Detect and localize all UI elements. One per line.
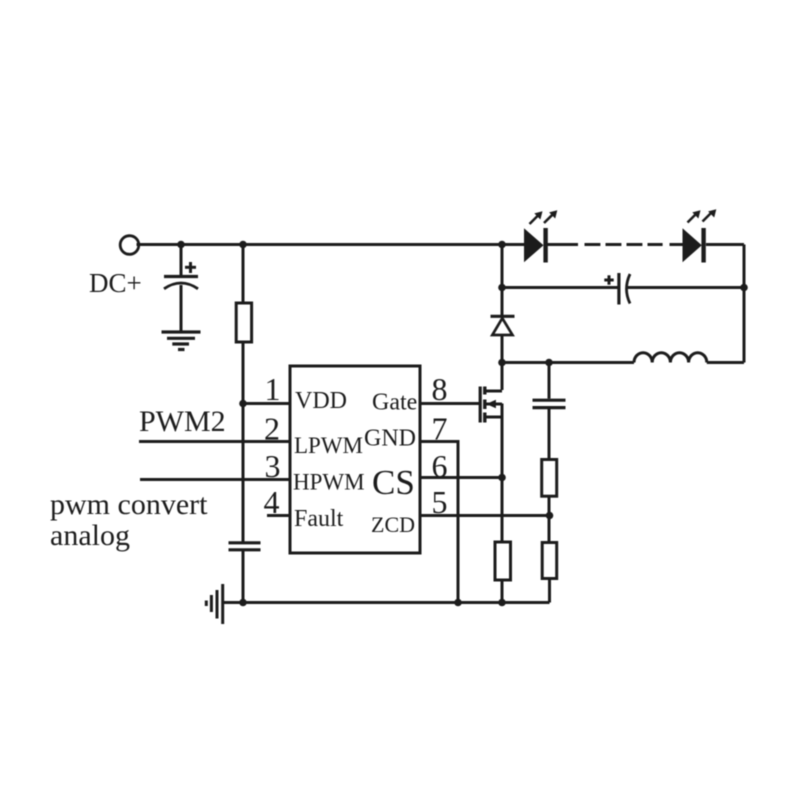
wire pin 4 stub	[267, 514, 290, 517]
node junction rail3 left	[498, 359, 506, 367]
svg-text:pwm convert: pwm convert	[50, 488, 208, 521]
capacitor C2 analog	[229, 543, 261, 550]
svg-text:8: 8	[432, 371, 448, 407]
wire pin 2 LPWM input	[139, 440, 290, 443]
wire pin 3 HPWM input	[140, 478, 290, 481]
wire Q1 drain up	[501, 363, 504, 391]
wire LED1 cathode	[546, 243, 578, 246]
LED D3	[683, 209, 717, 262]
diode D1 freewheel	[491, 316, 515, 335]
wire top rail	[137, 243, 503, 246]
node junction rail2 left	[498, 284, 506, 292]
inductor L1	[634, 353, 707, 363]
wire rail2 left segment	[502, 286, 618, 289]
wire C1 bottom lead	[180, 285, 183, 331]
svg-text:LPWM: LPWM	[294, 433, 363, 458]
node junction pin6 CS to source	[498, 474, 506, 482]
capacitor C1 polarized input	[164, 262, 198, 289]
wire pin 5 ZCD	[420, 514, 550, 517]
svg-text:HPWM: HPWM	[293, 470, 365, 495]
wire C1 top lead	[180, 245, 183, 277]
wire pin 7 GND down to rail	[420, 442, 458, 603]
wire LED2 anode	[670, 243, 683, 246]
svg-text:4: 4	[264, 484, 280, 520]
resistor R4 ZCD lower	[542, 543, 557, 579]
wire rail3 left segment	[502, 361, 634, 364]
capacitor C3 output polarized	[604, 273, 630, 305]
wire R4 bottom to rail	[548, 579, 551, 603]
wire R1 bottom to C2	[242, 342, 245, 543]
svg-text:1: 1	[265, 371, 281, 407]
terminal DC+ input	[120, 236, 139, 255]
transistor Q1 NMOS	[480, 387, 502, 423]
wire right vertical	[743, 245, 746, 363]
wire LED2 cathode to right	[706, 243, 744, 246]
node junction R3 rail	[498, 599, 506, 607]
resistor R2 ZCD upper	[542, 460, 557, 497]
wire C4 top lead	[548, 363, 551, 399]
wire Q1 source stub down	[501, 404, 504, 417]
ground earth symbol below C1	[162, 332, 201, 350]
wire R1 top lead	[242, 245, 245, 304]
node junction at C1 top	[177, 241, 185, 249]
svg-text:3: 3	[265, 448, 281, 484]
wire rail2 right segment	[628, 286, 745, 289]
svg-text:VDD: VDD	[295, 388, 347, 414]
node junction pin7 rail	[454, 599, 462, 607]
node junction C2 to rail	[239, 599, 247, 607]
ground rail bottom	[223, 601, 550, 604]
wire pin 8 to gate	[420, 402, 479, 405]
svg-text:Gate: Gate	[372, 390, 417, 416]
resistor R1 VDD feed	[236, 303, 251, 342]
svg-text:analog: analog	[50, 519, 130, 552]
svg-text:CS: CS	[372, 463, 415, 502]
ground symbol bottom left	[206, 584, 222, 624]
svg-text:Fault: Fault	[294, 506, 344, 532]
svg-text:ZCD: ZCD	[371, 512, 415, 537]
wire LED1 anode	[502, 243, 524, 246]
wire dashed LED string	[585, 243, 663, 246]
resistor R3 source sense	[495, 542, 511, 580]
wire pin 6 CS	[420, 476, 502, 479]
wire rail3 right segment	[707, 361, 744, 364]
node junction LED chain anode	[498, 241, 506, 249]
node junction pin1 VDD	[239, 400, 247, 408]
wire pin 1	[243, 402, 290, 405]
svg-text:PWM2: PWM2	[139, 405, 226, 438]
capacitor C4	[533, 400, 566, 407]
wire C4 to R2	[548, 408, 551, 460]
LED D2	[524, 210, 557, 262]
node junction at R1 top	[239, 241, 247, 249]
wire R2 to R4	[548, 496, 551, 542]
wire D1 anode down	[501, 334, 504, 363]
node junction C3 right	[740, 284, 748, 292]
wire R3 bottom	[501, 580, 504, 603]
svg-text:DC+: DC+	[89, 268, 142, 298]
node junction pin5 divider	[546, 512, 554, 520]
svg-text:GND: GND	[364, 426, 416, 452]
svg-text:2: 2	[264, 411, 280, 447]
wire switch node down to diode	[501, 245, 504, 316]
wire C2 bottom lead	[242, 550, 245, 603]
op-amp U1 driver IC body	[290, 366, 420, 553]
node junction C4 top	[545, 359, 553, 367]
wire Q1 source down	[501, 404, 504, 543]
